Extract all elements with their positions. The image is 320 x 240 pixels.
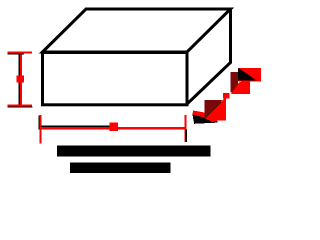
height dimension bottom cap <box>8 104 33 106</box>
redacted text bar 1 <box>57 146 210 157</box>
depth arrow upper head: red top block <box>238 68 261 81</box>
height dimension line: black shadow vertical <box>19 53 20 106</box>
box front face <box>43 53 188 105</box>
box right face edges <box>187 9 231 105</box>
depth arrow lower head: diagonal shading line <box>206 102 222 118</box>
height dimension line: red vertical <box>20 52 22 106</box>
depth arrow lower head: red front arrow <box>205 97 226 122</box>
depth arrow lower head: black shadow base <box>192 114 217 124</box>
redacted text bar 2 <box>70 163 171 173</box>
depth arrow handle square <box>223 93 230 99</box>
height dimension top cap <box>8 51 33 53</box>
width dimension red horizontal <box>41 127 185 129</box>
depth arrow upper head: maroon extrusion <box>230 72 238 92</box>
width dimension left tick <box>39 116 40 130</box>
depth arrow lower head: red left band <box>192 111 206 119</box>
depth arrow upper head: red lower triangle <box>231 80 250 95</box>
box top face <box>43 9 231 52</box>
width dimension black shadow horizontal <box>41 126 110 127</box>
height dimension handle square <box>17 76 25 83</box>
depth arrow lower head: maroon extrusion <box>205 100 223 118</box>
width dimension right tick <box>184 115 186 142</box>
width dimension handle square <box>110 123 119 132</box>
depth arrow upper head: black shadow triangle <box>238 68 256 81</box>
